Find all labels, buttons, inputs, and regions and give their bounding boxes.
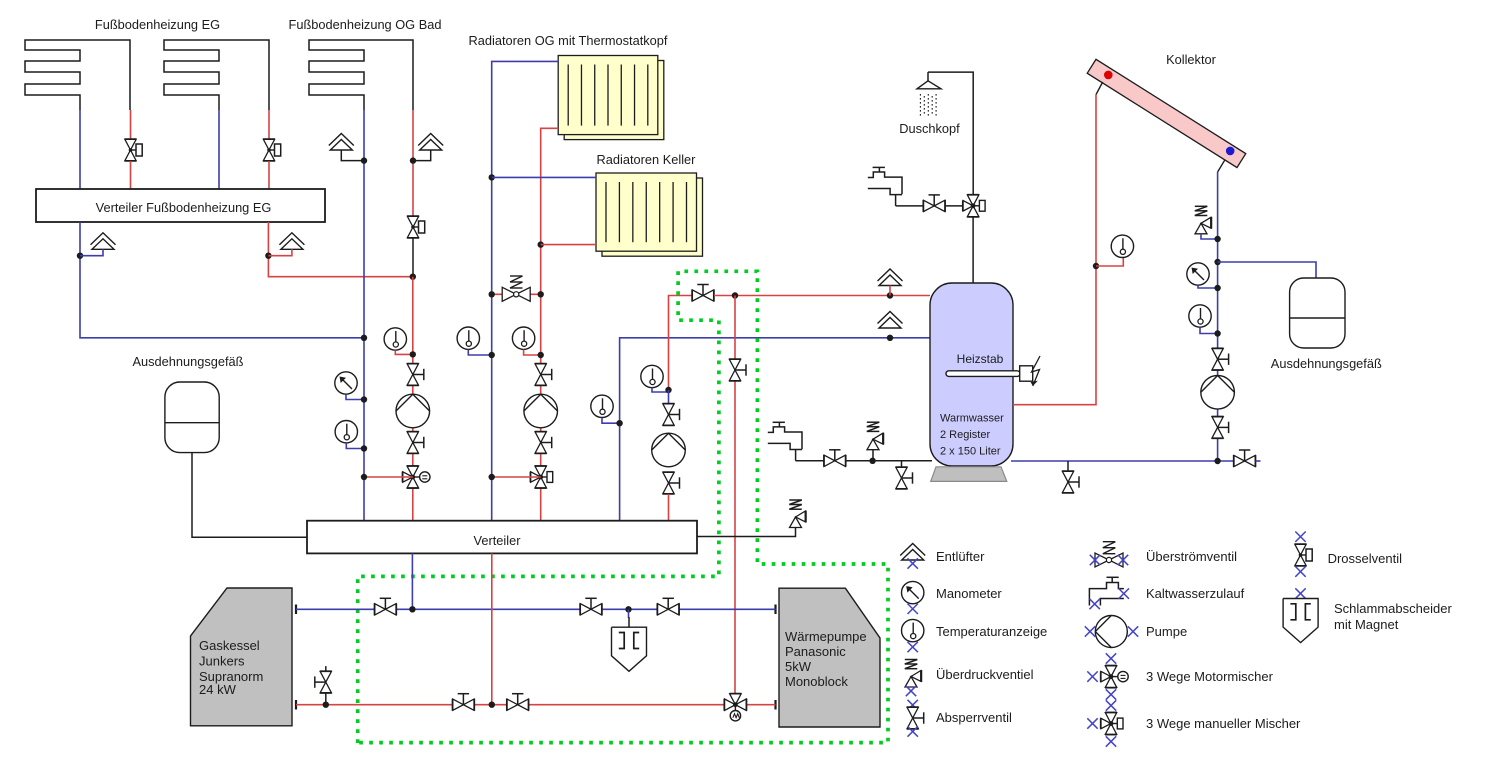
air vent V5 [878, 269, 903, 286]
boiler flange bottom [295, 700, 297, 710]
node red-D4 junction [732, 292, 738, 298]
legend label Pumpe [1146, 624, 1187, 639]
node T2 junction [410, 351, 416, 357]
valve D3 Drosselventil [407, 216, 425, 238]
svg-text:Verteiler: Verteiler [474, 533, 522, 548]
wire G3 red bottom [668, 494, 670, 521]
boiler flange top [295, 605, 297, 615]
wire coil1 supply red lower [130, 161, 132, 189]
label Radiatoren Keller [597, 152, 697, 167]
wire shower to tank [972, 217, 974, 284]
floor heating coil 3 [309, 40, 413, 110]
wire red G1 riser [412, 277, 414, 521]
node T6 junction [665, 387, 671, 393]
legend Drosselventil symbol [1294, 532, 1312, 577]
collector blue port [1226, 147, 1235, 156]
legend Schlammabscheider symbol [1283, 588, 1318, 642]
label Kollektor [1166, 52, 1217, 67]
svg-text:Schlammabscheider: Schlammabscheider [1334, 601, 1452, 616]
svg-text:Monoblock: Monoblock [785, 674, 848, 689]
pump P1 [396, 394, 430, 428]
valve AH8 Absperrventil [507, 694, 529, 712]
legend Manometer symbol [902, 581, 924, 614]
valve A6 Absperrventil [662, 472, 680, 494]
node coil3 red vent junction [410, 157, 416, 163]
air vent V3 [329, 134, 354, 151]
collector red port [1104, 71, 1113, 80]
wire coil3 supply red upper [412, 110, 414, 216]
faucet KW2 Kaltwasserzulauf [768, 422, 802, 461]
svg-text:Fußbodenheizung OG Bad: Fußbodenheizung OG Bad [289, 17, 442, 32]
legend label Kaltwasserzulauf [1146, 586, 1245, 601]
valve AV10 Absperrventil [315, 666, 333, 705]
valve AH2 Absperrventil [824, 450, 846, 468]
valve A1 Absperrventil [406, 364, 424, 386]
node cold water junction [869, 458, 875, 464]
legend label 3 Wege manueller Mischer [1146, 716, 1301, 731]
wire V3 stem black [341, 150, 364, 161]
manometer M2 [1187, 263, 1209, 285]
svg-text:2 x 150 Liter: 2 x 150 Liter [940, 446, 1001, 458]
valve AV7 Absperrventil drain [895, 461, 913, 489]
wire verteiler safety line [697, 528, 796, 537]
thermometer T7 [1111, 235, 1133, 257]
wire BV1 red link [492, 293, 541, 295]
pump P3 [652, 433, 686, 467]
svg-text:Ausdehnungsgefäß: Ausdehnungsgefäß [1271, 356, 1382, 371]
node SV3 junction [1214, 236, 1220, 242]
wire faucet to valve [896, 205, 962, 207]
svg-text:3 Wege manueller Mischer: 3 Wege manueller Mischer [1146, 716, 1301, 731]
valve AH3 Absperrventil [1234, 450, 1256, 468]
svg-text:Radiatoren Keller: Radiatoren Keller [597, 152, 697, 167]
expansion vessel EV1 [165, 382, 219, 453]
mixer MX3 3-Wege-manueller-Mischer [963, 195, 985, 217]
thermometer T8 [1189, 305, 1211, 327]
svg-text:2 Register: 2 Register [940, 429, 990, 441]
wire red drop D4 [734, 296, 736, 694]
wire red EG supply drop [268, 222, 412, 277]
legend label Absperrventil [936, 710, 1012, 725]
wire to solar vessel [1218, 262, 1316, 278]
label Fussbodenheizung OG Bad [289, 17, 442, 32]
node EG blue junction [77, 253, 83, 259]
safety valve SV3 Ueberdruckventil [1195, 206, 1212, 234]
valve A4 Absperrventil [534, 432, 552, 454]
shower head [917, 72, 941, 89]
legend Entlüfter symbol [900, 544, 925, 569]
thermometer T6 [641, 365, 663, 387]
wire coil2 return blue [218, 110, 220, 189]
svg-text:24 kW: 24 kW [199, 682, 237, 697]
node MX1 junction [361, 474, 367, 480]
valve AV8 Absperrventil [1211, 348, 1229, 370]
node AV10 junction [323, 702, 329, 708]
label Fussbodenheizung EG [95, 17, 220, 32]
legend 3 Wege manueller Mischer symbol [1087, 700, 1123, 746]
valve AV9 Absperrventil [1211, 416, 1229, 438]
label Duschkopf [899, 121, 960, 136]
heating rod Heizstab [946, 366, 1033, 381]
node MX2 junction [489, 474, 495, 480]
svg-text:Temperaturanzeige: Temperaturanzeige [936, 624, 1047, 639]
pump P2 [524, 394, 558, 428]
svg-text:Pumpe: Pumpe [1146, 624, 1187, 639]
svg-text:Wärmepumpe: Wärmepumpe [785, 629, 867, 644]
wire T5 stem blue [602, 418, 620, 424]
svg-text:Warmwasser: Warmwasser [940, 413, 1004, 425]
thermometer T4 [512, 327, 534, 349]
svg-text:Manometer: Manometer [936, 586, 1002, 601]
svg-text:Überdruckventiel: Überdruckventiel [936, 667, 1034, 682]
svg-text:Heizstab: Heizstab [957, 352, 1004, 366]
node Keller red junction [538, 241, 544, 247]
svg-text:Duschkopf: Duschkopf [899, 121, 960, 136]
box Verteiler Fussbodenheizung EG [36, 189, 325, 222]
wire red to tank [714, 295, 930, 297]
node T5 junction [616, 420, 622, 426]
dirt separator SA1 Schlammabscheider [612, 627, 647, 671]
node solar vessel junction [1214, 259, 1220, 265]
wire HP blue line [296, 608, 776, 610]
tank stand [931, 467, 1007, 482]
wire tank blue out [1011, 460, 1256, 462]
mixer MX4 3-Wege-Motormischer [724, 694, 746, 721]
node T4 junction [538, 352, 544, 358]
wire T6 stem blue [652, 388, 669, 392]
wire coil2 supply red upper [268, 110, 270, 139]
node HP blue junction2 [625, 606, 631, 612]
valve AH6 Absperrventil [657, 598, 679, 616]
legend label Temperaturanzeige [936, 624, 1047, 639]
safety valve SV1 Ueberdruckventil [867, 422, 884, 461]
svg-text:5kW: 5kW [785, 659, 812, 674]
valve A2 Absperrventil [406, 432, 424, 454]
thermometer T5 [591, 395, 613, 417]
label Heizstab [957, 352, 1004, 366]
wire G3 blue mid segment [668, 390, 670, 404]
svg-text:Überströmventil: Überströmventil [1146, 549, 1237, 564]
wire HP red line [296, 704, 776, 706]
legend 3 Wege Motormischer symbol [1087, 653, 1128, 699]
mixer MX2 3-Wege-manueller-Mischer [530, 466, 552, 488]
valve AH4 Absperrventil [374, 598, 396, 616]
legend label Manometer [936, 586, 1002, 601]
wire T2 stem red [395, 350, 413, 354]
wire schlamm stub [628, 609, 631, 627]
wire Keller red [541, 244, 596, 246]
wire T3 stem blue [468, 350, 491, 356]
node M1 junction [361, 396, 367, 402]
label tank text [940, 413, 1004, 458]
wire coil3 supply black mid [412, 238, 414, 277]
wire verteiler red drop [491, 553, 493, 704]
wire blue stub end [1256, 460, 1261, 462]
wire coil3 return blue [363, 110, 365, 521]
wire blue EG return drop [80, 222, 364, 338]
wire radOG blue [492, 61, 559, 520]
svg-text:Fußbodenheizung EG: Fußbodenheizung EG [95, 17, 220, 32]
svg-text:Kollektor: Kollektor [1166, 52, 1217, 67]
wire collector hot stub [1096, 82, 1103, 95]
svg-text:Junkers: Junkers [199, 654, 245, 669]
svg-text:Kaltwasserzulauf: Kaltwasserzulauf [1146, 586, 1245, 601]
legend label Entlüfter [936, 549, 985, 564]
air vent V6 [878, 312, 903, 329]
air vent V4 [418, 134, 443, 151]
thermometer T2 [384, 328, 406, 350]
wire solar hot red [1013, 95, 1096, 405]
svg-text:Radiatoren OG mit Thermostatko: Radiatoren OG mit Thermostatkopf [469, 33, 668, 48]
wire coil1 supply red upper [130, 110, 132, 139]
shower spray [920, 94, 936, 117]
valve AV11 drain [1062, 461, 1080, 493]
wire Keller blue [492, 176, 596, 178]
wire SV3 stem blue [1201, 234, 1218, 239]
wire verteiler blue drop [411, 553, 413, 609]
wire MX1 left red [364, 476, 413, 478]
bypass valve BV1 Ueberstroemventil [502, 276, 530, 302]
svg-text:Drosselventil: Drosselventil [1328, 551, 1403, 566]
legend Überströmventil symbol [1090, 542, 1128, 568]
wire V4 stem black [413, 150, 431, 161]
legend Absperrventil symbol [906, 700, 924, 737]
valve D4 Absperrventil [729, 359, 747, 381]
wire radOG red [541, 128, 559, 520]
node M2 junction [1214, 285, 1220, 291]
valve AH5 Absperrventil [580, 598, 602, 616]
valve AH1 Absperrventil [923, 195, 945, 213]
wire coil1 return blue [79, 110, 81, 189]
node T1 junction [361, 445, 367, 451]
expansion vessel EV2 [1290, 278, 1345, 348]
node HP blue junction1 [409, 606, 415, 612]
mixer MX1 3-Wege-Motormischer [402, 466, 430, 488]
collector panel [1087, 59, 1246, 167]
valve D2 Drosselventil [263, 139, 281, 161]
air vent V2 [279, 233, 304, 250]
wire T7 stem red [1096, 257, 1123, 266]
legend Kaltwasserzulauf symbol [1089, 577, 1129, 609]
thermometer T1 [335, 421, 357, 443]
tank Warmwasser [930, 283, 1013, 466]
node blue-G1 top [361, 335, 367, 341]
node tank red vent junction [887, 292, 893, 298]
svg-text:Panasonic: Panasonic [785, 644, 846, 659]
box Verteiler [307, 521, 697, 554]
radiator Keller [596, 173, 703, 256]
node BV1 left [489, 291, 495, 297]
legend Überdruckventiel symbol [905, 660, 922, 697]
floor heating coil 1 [25, 40, 130, 110]
wire V1 stem blue [80, 249, 103, 255]
label Ausdehnungsgefaess right [1271, 356, 1382, 371]
node coil3 blue vent junction [361, 157, 367, 163]
legend label Schlammabscheider [1334, 601, 1452, 632]
valve D1 Drosselventil [124, 139, 142, 161]
svg-text:3 Wege Motormischer: 3 Wege Motormischer [1146, 669, 1274, 684]
legend label Überströmventil [1146, 549, 1237, 564]
valve A3 Absperrventil [534, 364, 552, 386]
faucet KW1 Kaltwasserzulauf [868, 167, 902, 206]
node solar red junction [1093, 263, 1099, 269]
svg-text:Entlüfter: Entlüfter [936, 549, 985, 564]
node HP red junction [489, 702, 495, 708]
valve AH0 Absperrventil [692, 285, 714, 303]
floor heating coil 2 [164, 40, 269, 110]
legend label Überdruckventiel [936, 667, 1034, 682]
heat pump flange bottom [774, 700, 776, 710]
svg-text:Absperrventil: Absperrventil [936, 710, 1012, 725]
legend Temperaturanzeige symbol [902, 619, 924, 652]
svg-text:Verteiler Fußbodenheizung EG: Verteiler Fußbodenheizung EG [96, 200, 272, 215]
valve A5 Absperrventil [662, 404, 680, 426]
legend label 3 Wege Motormischer [1146, 669, 1274, 684]
wire blue G3 from tank [620, 338, 930, 521]
manometer M1 [335, 372, 357, 394]
wire collector cold stub [1218, 160, 1225, 172]
node BV1 right [538, 291, 544, 297]
svg-text:mit Magnet: mit Magnet [1334, 617, 1399, 632]
wire T8 stem blue [1200, 327, 1218, 333]
wire cold water line [796, 460, 932, 462]
valve AH7 Absperrventil [452, 694, 474, 712]
wire MX2 left red [492, 476, 541, 478]
safety valve SV2 Ueberdruckventil [789, 500, 806, 528]
wire EV1 to verteiler [192, 453, 307, 538]
node solar blue junction [1214, 458, 1220, 464]
label Ausdehnungsgefaess left [133, 354, 244, 369]
label Radiatoren OG mit Thermostatkopf [469, 33, 668, 48]
thermometer T3 [457, 327, 479, 349]
wire red G3 top [669, 296, 695, 389]
svg-text:Ausdehnungsgefäß: Ausdehnungsgefäß [133, 354, 244, 369]
heat pump Waermepumpe [779, 588, 880, 727]
wire solar cold blue [1217, 172, 1219, 461]
legend Pumpe symbol [1085, 616, 1138, 648]
radiator OG [558, 56, 664, 140]
wire V2 stem red [268, 249, 292, 255]
svg-text:Gaskessel: Gaskessel [199, 638, 260, 653]
legend label Drosselventil [1328, 551, 1403, 566]
wire M2 stem blue [1198, 285, 1218, 288]
wire T1 stem blue [346, 443, 364, 449]
wire V5 stem red [889, 286, 891, 296]
lightning symbol [1031, 356, 1040, 386]
boundary heat pump circuit green dotted [358, 271, 888, 743]
pump P4 [1201, 376, 1235, 410]
node T3 junction [489, 352, 495, 358]
node tank blue vent junction [887, 335, 893, 341]
air vent V1 [91, 233, 116, 250]
node T8 junction [1214, 330, 1220, 336]
wire coil2 supply red lower [268, 161, 270, 189]
wire T4 stem red [524, 350, 541, 356]
wire M1 stem blue [346, 394, 364, 399]
node red junction A [410, 274, 416, 280]
node Keller blue junction [489, 174, 495, 180]
wire shower line [928, 72, 973, 194]
boiler Gaskessel [191, 588, 293, 726]
heat pump flange top [774, 605, 776, 615]
node EG red junction [265, 253, 271, 259]
